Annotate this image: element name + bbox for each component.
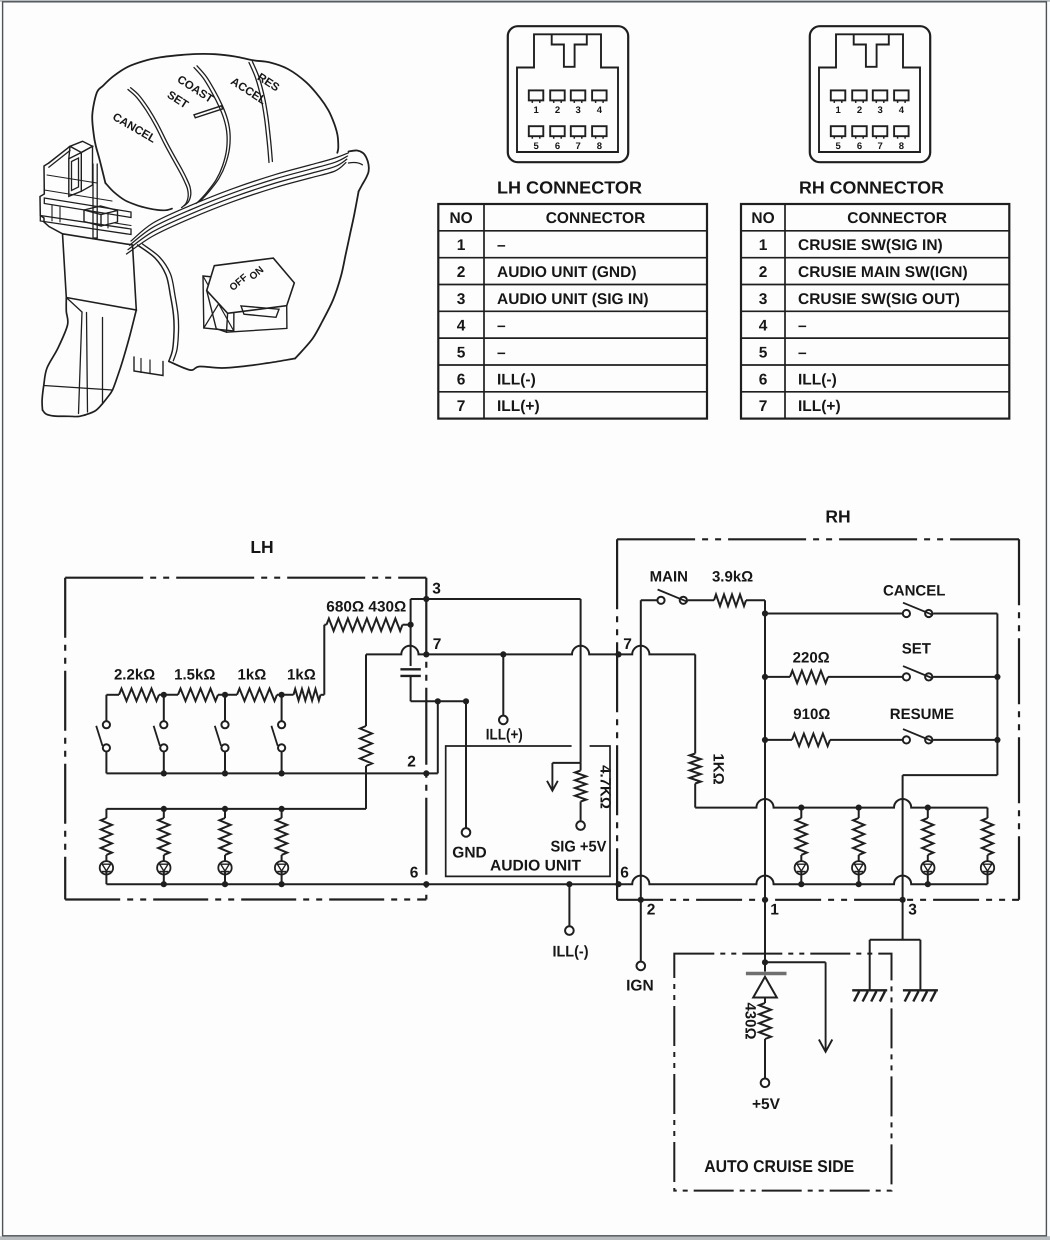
wire 910 to switch [830, 739, 903, 741]
switch: right panel outer edge [295, 191, 359, 358]
svg-text:1: 1 [835, 105, 841, 116]
svg-text:3: 3 [908, 902, 917, 919]
table row line [741, 284, 1009, 286]
svg-text:4.7KΩ: 4.7KΩ [597, 765, 614, 809]
table outer border [741, 204, 1009, 419]
wire 430 node down to capacitor [410, 625, 412, 666]
connector pin 3 [873, 90, 888, 100]
svg-text:–: – [497, 345, 506, 362]
table row line [438, 391, 707, 393]
wire switch 3 bottom stub [224, 752, 226, 774]
switch: mounting rail 1 [44, 198, 131, 218]
node rh lamptop3 [925, 805, 931, 811]
wire 220 to switch [828, 676, 903, 678]
switch S1 [103, 721, 110, 728]
svg-text:7: 7 [433, 636, 442, 653]
wire cancel right [933, 613, 997, 615]
node lampbot3 [222, 881, 228, 887]
node lampbot2 [161, 881, 167, 887]
AUDIO UNIT box [446, 746, 610, 876]
switch: cancel pad bottom [105, 183, 172, 210]
connector inner contour [819, 34, 920, 152]
wire switch 1 top stub [105, 695, 107, 721]
node chain-switch3 [222, 692, 228, 698]
switch: ridge 2 [194, 68, 227, 204]
ground symbol right [903, 989, 938, 991]
wire 430 node riser to 3 line [410, 599, 412, 625]
wire cap bottom horizontal [411, 700, 466, 702]
svg-text:4: 4 [899, 105, 905, 116]
connector pin 4 [894, 90, 909, 100]
table row line [438, 230, 707, 232]
terminal ILL(+) [499, 716, 508, 725]
svg-text:–: – [497, 318, 506, 335]
svg-text:NO: NO [751, 210, 774, 227]
table row line [741, 391, 1009, 393]
node 910 junction [762, 737, 768, 743]
wire pin1 vertical [764, 600, 766, 900]
svg-text:7: 7 [623, 636, 632, 653]
wire capacitor bottom [410, 676, 412, 701]
svg-text:–: – [798, 318, 807, 335]
svg-text:IGN: IGN [626, 978, 654, 995]
wire pin3 ground drop [902, 900, 904, 940]
wire switch 2 bottom stub [163, 752, 165, 774]
wire switch 2 top stub [163, 695, 165, 721]
wire ILL+ drop [502, 654, 504, 715]
node chain-switch4 [279, 692, 285, 698]
resistor 680 [327, 619, 365, 631]
switch S4 [278, 721, 285, 728]
switch MAIN [657, 597, 664, 604]
svg-text:1kΩ: 1kΩ [287, 667, 316, 684]
wire MAIN left drop (pin2) [640, 600, 642, 900]
table row line [438, 364, 707, 366]
connector pin 1 [529, 90, 544, 100]
node 220 junction [762, 674, 768, 680]
svg-text:2: 2 [647, 902, 656, 919]
svg-text:6: 6 [620, 865, 629, 882]
resistor 4.7K [580, 763, 582, 771]
switch: stalk inner lines [79, 312, 83, 414]
connector pin 6 [852, 126, 867, 136]
svg-text:AUDIO UNIT: AUDIO UNIT [490, 857, 582, 874]
svg-text:–: – [798, 345, 807, 362]
node lampbot4 [279, 881, 285, 887]
switch: ridge 3 [249, 63, 269, 163]
svg-text:3: 3 [759, 291, 768, 308]
svg-text:AUTO CRUISE SIDE: AUTO CRUISE SIDE [704, 1157, 854, 1176]
svg-text:CRUSIE SW(SIG IN): CRUSIE SW(SIG IN) [798, 237, 943, 254]
svg-text:5: 5 [759, 345, 768, 362]
node pin6 border crossing LH [423, 881, 429, 887]
wire: 6 line with hops [106, 876, 987, 885]
svg-text:5: 5 [835, 141, 841, 152]
switch: onoff recess wall [203, 276, 234, 331]
svg-text:ILL(-): ILL(-) [553, 944, 589, 961]
switch: slot mark [194, 106, 223, 118]
svg-text:1kΩ: 1kΩ [238, 667, 267, 684]
svg-text:NO: NO [449, 210, 472, 227]
wire: 3 line [411, 598, 581, 600]
resistor 2.2k [119, 689, 159, 701]
svg-text:7: 7 [575, 141, 580, 152]
table row line [741, 337, 1009, 339]
switch: button slot [241, 306, 279, 317]
svg-text:7: 7 [877, 141, 882, 152]
node rh lampbot2 [856, 881, 862, 887]
svg-text:GND: GND [452, 845, 486, 862]
table column divider [784, 204, 786, 419]
svg-text:2: 2 [407, 754, 416, 771]
terminal IGN [637, 962, 646, 971]
wire pin3 vertical [902, 775, 904, 900]
top gray strip [0, 0, 1050, 2]
connector pin 8 [592, 126, 607, 136]
illumination lamp L4 with resistor [281, 809, 283, 818]
node pin2 border crossing [423, 770, 429, 776]
svg-text:2: 2 [857, 105, 862, 116]
svg-text:6: 6 [410, 865, 419, 882]
svg-text:6: 6 [759, 371, 768, 388]
switch: left roof slope [49, 146, 70, 163]
svg-text:3: 3 [575, 105, 580, 116]
node rh lampbot3 [925, 881, 931, 887]
wire resume right [933, 739, 997, 741]
table column divider [483, 204, 485, 419]
svg-text:4: 4 [597, 105, 603, 116]
node bus-switch4 [279, 770, 285, 776]
connector pin 6 [550, 126, 565, 136]
node ILL- junction [566, 881, 572, 887]
wire switch 4 bottom stub [281, 752, 283, 774]
table row line [438, 337, 707, 339]
node bus-switch3 [222, 770, 228, 776]
wire arrow branch auto cruise [765, 961, 826, 963]
node rh lampbot1 [798, 881, 804, 887]
node pin3 border crossing [423, 596, 429, 602]
diode D1 [746, 972, 787, 975]
wire pin2 riser [437, 701, 439, 773]
terminal SIG +5V [576, 821, 585, 830]
wire right column [996, 614, 998, 776]
svg-text:2: 2 [457, 264, 466, 281]
switch: clamp block [84, 206, 118, 215]
svg-text:3.9kΩ: 3.9kΩ [712, 569, 753, 586]
svg-text:1: 1 [770, 902, 779, 919]
node ILL+ junction [500, 651, 506, 657]
svg-text:3: 3 [432, 581, 441, 598]
resistor 3.9k [714, 595, 746, 607]
svg-text:SIG +5V: SIG +5V [551, 839, 608, 856]
svg-text:RESUME: RESUME [890, 706, 954, 723]
svg-text:7: 7 [457, 398, 466, 415]
wire switch 1 bottom stub [105, 752, 107, 774]
switch S3 [221, 721, 228, 728]
svg-text:8: 8 [899, 141, 904, 152]
cruise control switch assembly illustration [40, 54, 369, 417]
svg-text:CRUSIE MAIN SW(IGN): CRUSIE MAIN SW(IGN) [798, 264, 968, 281]
wire pin1 into auto cruise [764, 900, 766, 972]
node pin7 border crossing RH [615, 651, 621, 657]
resistor 1k b [294, 689, 321, 701]
svg-text:3: 3 [877, 105, 882, 116]
node chain-switch2 [161, 692, 167, 698]
svg-text:6: 6 [857, 141, 862, 152]
svg-text:6: 6 [555, 141, 560, 152]
switch: stalk [42, 298, 68, 411]
svg-text:910Ω: 910Ω [793, 706, 830, 723]
wire 220 row lead [765, 676, 790, 678]
capacitor C1 [400, 668, 420, 670]
table row line [741, 364, 1009, 366]
connector pin 7 [873, 126, 888, 136]
node rh lamptop2 [856, 805, 862, 811]
svg-text:5: 5 [533, 141, 539, 152]
node gnd branch junction [463, 698, 469, 704]
wire ground left drop [869, 940, 871, 991]
connector pin 2 [550, 90, 565, 100]
svg-text:CANCEL: CANCEL [883, 583, 946, 600]
svg-text:ILL(+): ILL(+) [486, 727, 523, 744]
switch: tower window [72, 158, 79, 191]
switch: bracket detail lines [47, 175, 97, 183]
wire MAIN to 3.9k [688, 599, 714, 601]
table row line [438, 257, 707, 259]
svg-text:4: 4 [457, 318, 466, 335]
resistor 910 [792, 734, 830, 746]
switch S2 [160, 721, 167, 728]
svg-text:680Ω 430Ω: 680Ω 430Ω [326, 599, 406, 616]
LH box border [65, 577, 426, 579]
svg-text:AUDIO UNIT (SIG IN): AUDIO UNIT (SIG IN) [497, 291, 649, 308]
ground symbol left [852, 989, 887, 991]
current arrow auto cruise [825, 962, 827, 1051]
switch: tray right lip [349, 150, 369, 191]
resistor 1k a [237, 689, 277, 701]
switch: tower box [70, 141, 93, 152]
svg-text:7: 7 [759, 398, 768, 415]
switch CANCEL [903, 610, 910, 617]
connector key slot [552, 34, 587, 67]
connector pin 2 [852, 90, 867, 100]
table row line [741, 310, 1009, 312]
svg-text:1: 1 [759, 237, 768, 254]
resistor 430 vertical [759, 1003, 771, 1039]
node lamptop3 [222, 806, 228, 812]
svg-text:1: 1 [457, 237, 466, 254]
switch: ON/OFF button [207, 258, 295, 313]
node pin3 bottom crossing [900, 897, 906, 903]
svg-text:MAIN: MAIN [650, 569, 688, 586]
wire arrow branch [552, 762, 580, 764]
bottom gray strip [0, 1236, 1050, 1240]
svg-text:CONNECTOR: CONNECTOR [546, 210, 646, 227]
wire switch 3 top stub [224, 695, 226, 721]
wire: switch bottom bus (pin2) [106, 772, 437, 774]
wire chain up to 680 row [323, 625, 325, 695]
connector pin 1 [831, 90, 846, 100]
terminal +5V [761, 1079, 770, 1088]
wire jog to pin3 [903, 774, 998, 776]
connector outer housing [810, 26, 930, 162]
svg-text:LH: LH [250, 537, 273, 557]
wire: lamp top bus LH [106, 808, 366, 810]
svg-text:2.2kΩ: 2.2kΩ [114, 667, 155, 684]
switch: ridge 1 [128, 90, 188, 208]
node cancel junction [762, 610, 768, 616]
node lamptop2 [161, 806, 167, 812]
svg-text:ILL(+): ILL(+) [497, 398, 540, 415]
wire ground tee [870, 939, 921, 941]
wire: resistor chain top line [106, 694, 119, 696]
svg-text:RH CONNECTOR: RH CONNECTOR [799, 178, 944, 198]
node bus-switch2 [161, 770, 167, 776]
svg-text:ILL(-): ILL(-) [497, 371, 536, 388]
svg-text:8: 8 [597, 141, 602, 152]
wire RH lamp top bus [695, 799, 987, 808]
wire ground right drop [919, 940, 921, 991]
switch: vertical post [92, 164, 94, 238]
connector pin 8 [894, 126, 909, 136]
switch: panel bottom edge [169, 359, 295, 371]
svg-text:1: 1 [533, 105, 539, 116]
illumination lamp L1 with resistor [105, 809, 107, 818]
wire diode to resistor [764, 998, 766, 1004]
svg-text:CONNECTOR: CONNECTOR [847, 210, 947, 227]
node pin1 bottom crossing [762, 897, 768, 903]
AUTO CRUISE SIDE box border [674, 954, 891, 1191]
switch: under-body steps [134, 357, 163, 376]
svg-text:4: 4 [759, 318, 768, 335]
connector pin 7 [571, 126, 586, 136]
wire switch 4 top stub [281, 695, 283, 721]
switch SET [903, 673, 910, 680]
svg-text:3: 3 [457, 291, 466, 308]
wire 3.9k to corner [746, 599, 765, 601]
connector outer housing [508, 26, 628, 162]
illumination lamp L3 with resistor [224, 809, 226, 818]
svg-text:2: 2 [555, 105, 560, 116]
svg-text:AUDIO UNIT (GND): AUDIO UNIT (GND) [497, 264, 637, 281]
illumination lamp L2 with resistor [163, 809, 165, 818]
switch: tray rim band [131, 153, 349, 241]
table row line [438, 310, 707, 312]
wire set right [933, 676, 997, 678]
wire: 7 line with hops [366, 646, 695, 655]
svg-text:1KΩ: 1KΩ [710, 753, 727, 784]
switch: body front curve [138, 245, 175, 361]
resistor 430 [365, 619, 403, 631]
node set right junction [994, 674, 1000, 680]
connector pin 5 [529, 126, 544, 136]
wire IGN drop [640, 900, 642, 962]
switch: rocker dome outline [92, 54, 338, 183]
svg-text:220Ω: 220Ω [793, 650, 830, 667]
wire 910 row lead [765, 739, 792, 741]
svg-text:2: 2 [759, 264, 768, 281]
resistor 1.5k [178, 689, 218, 701]
svg-text:ILL(+): ILL(+) [798, 398, 841, 415]
table row line [741, 230, 1009, 232]
connector inner contour [517, 34, 618, 152]
terminal ILL(-) [565, 926, 574, 935]
svg-text:5: 5 [457, 345, 466, 362]
resistor 220 [790, 671, 828, 683]
connector key slot [854, 34, 889, 67]
node riser junction [435, 698, 441, 704]
svg-text:430Ω: 430Ω [742, 1002, 759, 1039]
switch: front face slab [63, 234, 137, 310]
switch: left wall [40, 163, 63, 234]
table outer border [438, 204, 707, 419]
wire gnd drop [465, 701, 467, 828]
resistor 1K vertical [694, 654, 696, 753]
illumination lamp R2 with resistor [858, 808, 860, 818]
illumination lamp R3 with resistor [927, 808, 929, 818]
illumination lamp R4 with resistor [987, 808, 989, 818]
switch RESUME [903, 736, 910, 743]
wire 680 row leads [324, 624, 326, 626]
wire: sig line down from 3 [580, 599, 582, 763]
node resume right junction [994, 737, 1000, 743]
illumination lamp R1 with resistor [800, 808, 802, 818]
RH box border [617, 538, 1019, 540]
terminal GND [462, 828, 471, 837]
signal arrow (audio unit) [551, 763, 553, 790]
connector pin 4 [592, 90, 607, 100]
svg-text:–: – [497, 237, 506, 254]
switch: mounting rail 2 [40, 216, 131, 235]
node rh lamptop1 [798, 805, 804, 811]
svg-text:SET: SET [902, 641, 931, 658]
svg-text:ILL(-): ILL(-) [798, 371, 837, 388]
table row line [438, 284, 707, 286]
wire cancel row [765, 613, 903, 615]
connector pin 5 [831, 126, 846, 136]
node 680/430 junction [408, 622, 414, 628]
node pin2 bottom crossing [638, 897, 644, 903]
connector pin 3 [571, 90, 586, 100]
node pin6 border crossing RH [615, 881, 621, 887]
resistor unlabeled vertical (LH) [365, 654, 367, 726]
svg-text:CRUSIE SW(SIG OUT): CRUSIE SW(SIG OUT) [798, 291, 960, 308]
node lamptop4 [279, 806, 285, 812]
svg-text:6: 6 [457, 371, 466, 388]
svg-text:+5V: +5V [752, 1096, 781, 1113]
table row line [741, 257, 1009, 259]
svg-text:LH CONNECTOR: LH CONNECTOR [497, 178, 642, 198]
svg-text:1.5kΩ: 1.5kΩ [174, 667, 215, 684]
wire ILL- drop [568, 884, 570, 926]
svg-text:RH: RH [825, 507, 850, 527]
node diode top [762, 959, 768, 965]
node pin7 border crossing LH [423, 651, 429, 657]
